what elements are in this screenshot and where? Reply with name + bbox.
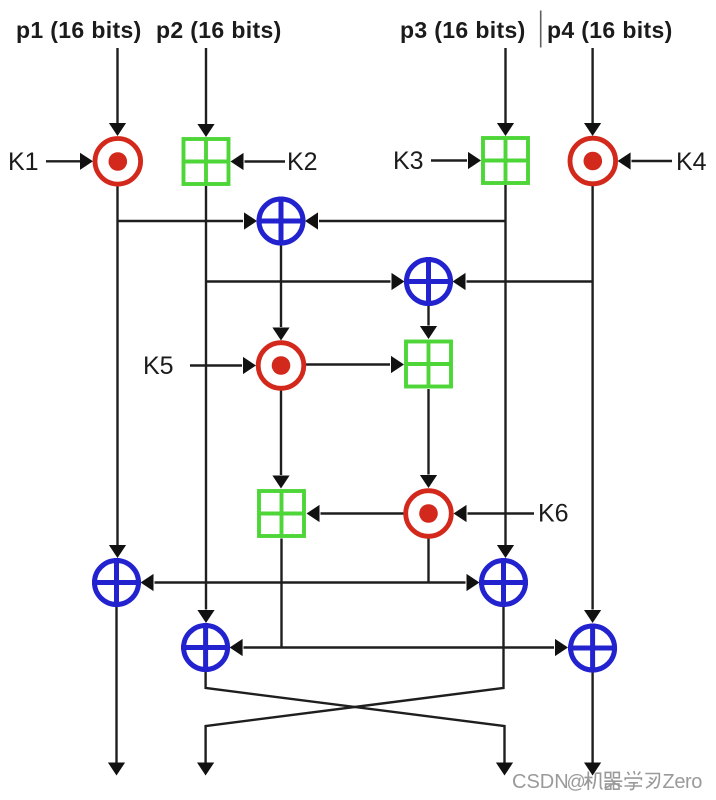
wire X6 output down (output y4) xyxy=(584,673,601,776)
divider between p3 and p4 xyxy=(540,11,542,48)
wire X5 output cross to bottom-right (output y3) xyxy=(206,672,513,776)
svg-text:p4 (16 bits): p4 (16 bits) xyxy=(547,17,673,43)
watermark hanzi 习 xyxy=(645,774,659,789)
wire X1 output down to K5 xyxy=(272,245,289,341)
svg-text:K2: K2 xyxy=(287,148,318,176)
wire X4 output cross to bottom-left (output y2) xyxy=(197,607,504,776)
wire K5 output right to A1 xyxy=(306,356,404,373)
xor X3 xyxy=(92,558,141,607)
svg-text:K5: K5 xyxy=(143,352,174,380)
wire K4 lead xyxy=(618,152,672,169)
wire K3 output down to X4 xyxy=(497,185,514,558)
adder K2 xyxy=(184,139,229,184)
multiplier K6 xyxy=(406,491,452,537)
multiplier K1 xyxy=(95,139,141,185)
svg-text:K3: K3 xyxy=(393,147,424,175)
xor X6 xyxy=(568,624,617,673)
wire K3 lead xyxy=(431,152,481,169)
wire K6 lead xyxy=(454,505,535,522)
wire K4 output down to X6 xyxy=(584,186,601,623)
wire p4 input xyxy=(584,48,601,136)
adder A1 xyxy=(406,342,451,387)
wire K6 output left to A2 xyxy=(307,505,404,522)
wire K5 lead xyxy=(190,357,256,374)
wire A2 output down then split at node N2 xyxy=(230,539,568,657)
multiplier K4 xyxy=(570,138,616,184)
wire p2 input xyxy=(197,48,214,137)
wire K2 output down to X5 xyxy=(197,186,214,623)
svg-text:p3 (16 bits): p3 (16 bits) xyxy=(400,17,526,43)
wire K1 output down to X3 xyxy=(109,187,126,559)
wire node T4 branch to X2 xyxy=(453,273,593,290)
adder A2 xyxy=(259,491,304,536)
watermark hanzi 机 xyxy=(584,772,603,791)
svg-text:K6: K6 xyxy=(538,500,569,528)
xor X5 xyxy=(181,623,230,672)
wire node T2 branch to X2 xyxy=(206,273,405,290)
wire K6 output down then split at node N1 xyxy=(141,539,480,592)
multiplier K5 xyxy=(258,343,304,389)
xor X4 xyxy=(479,558,528,607)
svg-text:@: @ xyxy=(567,772,586,793)
wire K2 lead xyxy=(231,153,286,170)
wire node T3 branch to X1 xyxy=(305,212,506,229)
xor X2 xyxy=(404,257,453,306)
wire p1 input xyxy=(109,48,126,136)
wire A1 output down to K6 xyxy=(420,389,437,488)
svg-text:p1 (16 bits): p1 (16 bits) xyxy=(16,17,142,43)
svg-text:Zero: Zero xyxy=(663,771,703,793)
watermark hanzi 学 xyxy=(625,771,643,790)
svg-text:p2 (16 bits): p2 (16 bits) xyxy=(156,17,282,43)
adder K3 xyxy=(483,138,528,183)
xor X1 xyxy=(257,197,306,246)
wire node T1 branch to X1 xyxy=(118,212,258,229)
wire p3 input xyxy=(497,48,514,136)
svg-text:K4: K4 xyxy=(676,148,707,176)
wire K5 output down to A2 xyxy=(272,391,289,489)
wire K1 lead xyxy=(46,153,93,170)
watermark hanzi 器 xyxy=(604,772,622,789)
svg-text:K1: K1 xyxy=(8,148,39,176)
wire X3 output down (output y1) xyxy=(108,607,125,776)
svg-text:CSDN: CSDN xyxy=(512,771,569,793)
wire X2 output down to A1 xyxy=(420,306,437,340)
